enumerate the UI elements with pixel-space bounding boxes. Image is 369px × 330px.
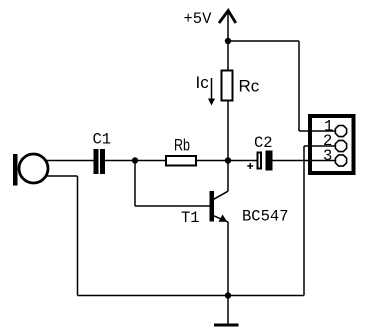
resistor Rb [166, 156, 196, 166]
wire Rb to collector node [197, 160, 228, 162]
wire mic bottom drop [77, 176, 79, 296]
wire bottom ground rail [78, 295, 305, 297]
wire base drop from node B [134, 161, 136, 207]
wire emitter down [227, 222, 229, 296]
svg-text:+5V: +5V [184, 10, 213, 28]
junction dot collector node [225, 157, 231, 163]
ground symbol [214, 324, 239, 327]
wire node B to Rb [135, 160, 166, 162]
wire base horizontal [135, 205, 210, 207]
wire C1 to node B [105, 160, 135, 162]
svg-text:Rc: Rc [239, 77, 260, 96]
svg-text:Ic: Ic [196, 73, 210, 92]
supply +5V symbol [219, 11, 236, 42]
svg-text:T1: T1 [181, 209, 200, 227]
svg-text:C2: C2 [254, 134, 273, 152]
junction dot ground node [225, 292, 231, 298]
wire mic bottom lead [46, 175, 78, 177]
svg-text:C1: C1 [93, 131, 112, 149]
svg-text:Rb: Rb [174, 136, 190, 155]
junction dot node B [132, 157, 138, 163]
wire C2 to pin 3 [273, 160, 336, 162]
connector X1 body [310, 116, 354, 173]
wire Rc top lead [227, 41, 229, 70]
wire pin 2 drop [303, 146, 305, 296]
svg-text:BC547: BC547 [242, 208, 289, 226]
pad pin 2 [335, 140, 346, 151]
wire ground stub [227, 296, 229, 324]
wire into pin 1 [299, 130, 335, 132]
current arrow Ic [208, 78, 215, 106]
wire Rc bottom to collector [227, 102, 229, 192]
pad pin 1 [335, 126, 346, 137]
plus mark of C2 [247, 163, 253, 169]
wire collector node to C2 [228, 160, 257, 162]
microphone MIC1 [13, 154, 48, 186]
wire mic to C1 [47, 160, 94, 162]
pad pin 3 [335, 155, 346, 166]
resistor Rc [222, 71, 233, 101]
junction dot at +5V node [225, 38, 231, 44]
transistor T1 [210, 191, 229, 222]
capacitor C2 polarized [258, 151, 273, 171]
svg-text:3: 3 [323, 147, 332, 165]
wire pin 2 left [304, 145, 335, 147]
wire right drop to pin1 [298, 41, 300, 131]
capacitor C1 [94, 149, 106, 174]
wire top rail right [228, 40, 299, 42]
